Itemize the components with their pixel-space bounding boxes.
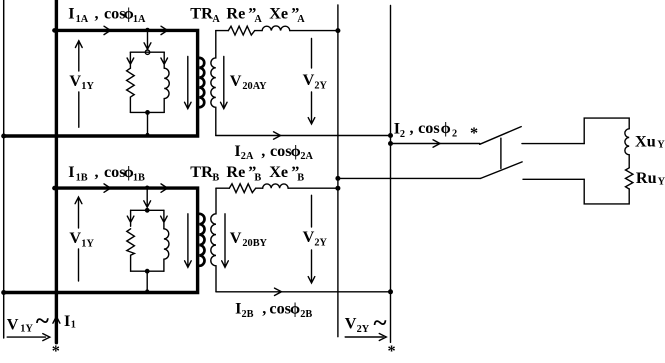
svg-text:*: *	[388, 342, 396, 360]
label V20BY	[230, 229, 268, 249]
node feed dot box B	[145, 186, 149, 190]
svg-text:Y: Y	[657, 139, 665, 150]
arrow I1 on phase line	[53, 316, 60, 323]
switch top blade	[480, 127, 522, 145]
wire secondary A bottom I2A	[216, 135, 391, 137]
svg-text:1Y: 1Y	[20, 324, 33, 335]
wire neutral bus left	[3, 0, 5, 338]
svg-text:I: I	[235, 300, 241, 318]
svg-text:~: ~	[374, 310, 387, 337]
arrow primary winding A	[185, 57, 192, 109]
svg-text:cos: cos	[269, 300, 291, 318]
svg-text:,: ,	[95, 5, 99, 23]
junction node box B bottom-left	[1, 290, 6, 295]
switch link bar	[500, 138, 502, 168]
resistor Rm A	[127, 68, 135, 112]
svg-text:,: ,	[262, 300, 266, 318]
label V2Y upper	[303, 71, 328, 91]
arrow V1Y box B	[75, 197, 82, 281]
wire shunt stem A	[147, 112, 149, 134]
arrow I1B second on box B top	[161, 184, 168, 192]
svg-text:cos: cos	[270, 142, 292, 160]
wire secondary B bottom I2B	[216, 291, 391, 293]
junction bus1 top	[335, 28, 340, 33]
svg-text:cos: cos	[104, 5, 126, 23]
svg-text:20AY: 20AY	[242, 81, 267, 92]
svg-text:V: V	[303, 71, 315, 89]
node feed dot box A	[146, 28, 150, 32]
svg-text:Xe: Xe	[269, 163, 288, 181]
label V2Y lower	[303, 228, 328, 248]
wire load bottom	[584, 179, 629, 204]
label V1Y source	[7, 308, 49, 335]
inductor Xe"B	[263, 184, 288, 188]
svg-text:V: V	[303, 228, 315, 246]
svg-text:,: ,	[261, 142, 265, 160]
arrow I1B on box B top	[104, 184, 111, 192]
arrow V2Y source bottom	[345, 334, 386, 341]
arrow into Rm A	[127, 52, 134, 68]
wire switch top contact	[522, 143, 584, 145]
label I1B cosphi1B	[68, 163, 145, 183]
svg-text:1B: 1B	[133, 173, 145, 184]
wire Xe"B to bus1	[288, 187, 338, 189]
svg-text:V: V	[345, 315, 357, 333]
switch bottom blade	[481, 162, 522, 179]
inductor XuY	[625, 129, 629, 155]
wire lower feed to switch	[338, 177, 481, 179]
arrow into Xm B	[161, 210, 168, 229]
svg-text:Y: Y	[658, 176, 665, 187]
node stem bottom B	[145, 289, 149, 293]
label V2Y source	[345, 310, 387, 337]
wire shunt stem B	[146, 271, 148, 291]
wire shunt top bar B	[131, 209, 164, 211]
wire between Re"A and Xe"A	[255, 30, 262, 32]
svg-text:V: V	[7, 316, 19, 334]
svg-text:V: V	[69, 229, 81, 247]
wire Xe"A to bus1	[290, 30, 338, 32]
svg-text:20BY: 20BY	[242, 238, 267, 249]
svg-text:Re: Re	[226, 163, 245, 181]
svg-text:1: 1	[71, 319, 76, 330]
junction bus2 I2	[388, 141, 393, 146]
svg-text:V: V	[69, 72, 81, 90]
svg-text:B: B	[297, 173, 304, 184]
arrow V1Y box A	[75, 41, 82, 128]
svg-text:I: I	[68, 163, 74, 181]
resistor Rm B	[127, 229, 135, 271]
arrow primary winding B	[185, 214, 192, 267]
arrow I1A second on box A top	[161, 26, 168, 34]
arrow I2A	[274, 132, 281, 139]
svg-text:I: I	[234, 142, 240, 160]
wire secondary B top lead	[216, 187, 229, 189]
junction bus2 B bottom	[388, 289, 393, 294]
resistor Re"B	[229, 184, 255, 193]
wire I2 output	[391, 143, 480, 145]
svg-text:2: 2	[452, 129, 457, 140]
svg-text:B: B	[254, 173, 261, 184]
inductor Xm B	[164, 229, 169, 271]
svg-text:ϕ: ϕ	[291, 142, 301, 160]
svg-text:,: ,	[410, 119, 414, 137]
svg-text:cos: cos	[418, 119, 440, 137]
svg-text:I: I	[68, 5, 74, 23]
svg-text:TR: TR	[190, 163, 213, 181]
wire shunt bottom bar B	[131, 270, 164, 272]
wire bus line 1	[337, 5, 339, 337]
arrow I2B	[275, 288, 282, 295]
junction node box A bottom-left	[1, 134, 6, 139]
svg-text:cos: cos	[104, 163, 126, 181]
svg-text:2B: 2B	[242, 309, 254, 320]
arrow into Rm B	[127, 210, 134, 226]
svg-text:~: ~	[36, 308, 49, 335]
label TRA ReA XeA	[190, 5, 305, 25]
label RuY	[636, 169, 665, 188]
label V1Y box B	[69, 229, 94, 249]
transformer TR_B secondary winding	[211, 188, 216, 292]
svg-text:1Y: 1Y	[81, 81, 94, 92]
junction node filled B	[145, 208, 150, 213]
label V1Y box A	[69, 72, 94, 92]
junction node box A top-left	[52, 28, 57, 33]
svg-text:V: V	[230, 72, 242, 90]
svg-text:Xe: Xe	[269, 5, 288, 23]
svg-text:V: V	[230, 229, 242, 247]
arrow V20BY	[222, 214, 229, 267]
svg-text:,: ,	[95, 163, 99, 181]
wire feed to magnetizing branch B	[144, 190, 151, 208]
resistor Re"A	[228, 26, 254, 35]
svg-text:1A: 1A	[133, 14, 146, 25]
wire load right middle	[628, 155, 630, 168]
load box with XuY and RuY	[584, 118, 629, 144]
wire bus line 2	[390, 6, 392, 343]
junction bus1 B top	[335, 186, 340, 191]
svg-text:I: I	[64, 312, 70, 330]
svg-text:*: *	[52, 342, 60, 360]
arrow V20AY	[221, 57, 228, 109]
label I1A cosphi1A	[68, 5, 146, 25]
transformer TR_A primary box	[4, 30, 198, 136]
junction node box B top-left	[52, 186, 57, 191]
svg-text:2Y: 2Y	[314, 80, 327, 91]
wire switch bottom contact	[523, 178, 584, 180]
svg-text:2: 2	[400, 129, 405, 140]
junction bus1 lower feed	[335, 176, 340, 181]
arrow I2	[433, 140, 440, 147]
resistor RuY	[626, 168, 633, 189]
transformer TR_A primary winding	[199, 58, 204, 107]
wire between Re"B and Xe"B	[256, 187, 263, 189]
transformer TR_B primary winding	[199, 214, 204, 266]
svg-text:ϕ: ϕ	[290, 300, 300, 318]
svg-text:2A: 2A	[300, 151, 313, 162]
svg-text:1Y: 1Y	[81, 238, 94, 249]
label XuY	[635, 132, 665, 150]
svg-text:1B: 1B	[76, 173, 88, 184]
svg-text:2A: 2A	[241, 151, 254, 162]
transformer TR_A secondary winding	[211, 31, 216, 136]
junction shunt bottom A	[145, 110, 150, 115]
svg-text:2B: 2B	[300, 309, 312, 320]
svg-text:Ru: Ru	[636, 169, 657, 187]
label TRB ReB XeB	[190, 163, 304, 183]
wire shunt bottom bar A	[130, 111, 164, 113]
label I2 cosphi2	[394, 119, 457, 140]
arrow I1A on box A top	[104, 26, 111, 34]
label I2B cosphi2B	[235, 300, 312, 320]
svg-text:ϕ: ϕ	[441, 119, 451, 137]
svg-text:*: *	[470, 124, 478, 142]
svg-text:2Y: 2Y	[357, 324, 370, 335]
label I2A cosphi2A	[234, 142, 313, 162]
label I1	[64, 312, 76, 331]
svg-text:Xu: Xu	[635, 132, 656, 150]
arrow into Xm A	[161, 52, 168, 68]
node open circle A	[145, 50, 149, 54]
node stem bottom A	[146, 133, 150, 137]
svg-text:Re: Re	[226, 5, 245, 23]
svg-text:A: A	[254, 14, 262, 25]
svg-text:B: B	[212, 173, 219, 184]
junction shunt bottom B	[145, 269, 150, 274]
wire feed to magnetizing branch A	[144, 32, 151, 49]
wire shunt top bar A	[130, 51, 164, 53]
arrow V2Y lower	[308, 195, 315, 283]
svg-text:A: A	[212, 14, 220, 25]
inductor Xm A	[164, 68, 169, 112]
svg-text:TR: TR	[190, 5, 213, 23]
transformer TR_B primary box	[4, 188, 198, 292]
svg-text:1A: 1A	[76, 14, 89, 25]
svg-text:2Y: 2Y	[314, 237, 327, 248]
inductor Xe"A	[262, 26, 290, 31]
arrow V1Y source bottom	[7, 334, 50, 341]
wire phase line	[55, 0, 58, 343]
label V20AY	[230, 72, 267, 92]
wire secondary A top lead	[216, 30, 229, 32]
arrow V2Y upper	[308, 39, 315, 125]
junction bus2 I2A	[388, 133, 393, 138]
svg-text:A: A	[297, 14, 305, 25]
